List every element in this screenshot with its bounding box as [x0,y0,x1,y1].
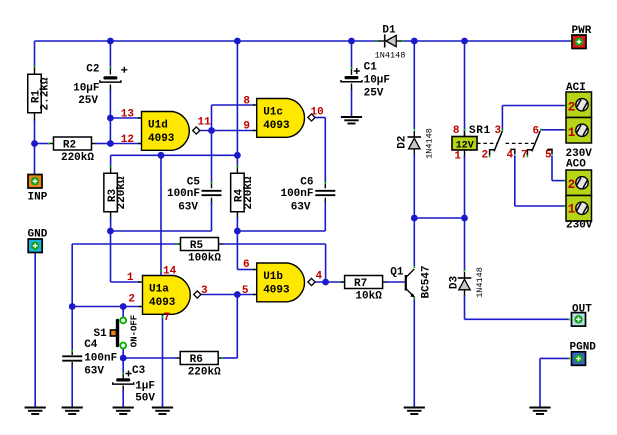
wire node to D3 [464,218,466,272]
svg-text:1: 1 [568,203,576,217]
svg-text:10kΩ: 10kΩ [355,291,382,303]
wire node row left [111,230,212,232]
svg-text:ACI: ACI [566,82,586,94]
svg-text:220kΩ: 220kΩ [116,176,128,209]
wire U1d out to U1c pin9 [199,130,253,132]
svg-text:8: 8 [453,125,460,137]
resistor R4 box [231,173,245,212]
svg-text:4093: 4093 [263,285,290,297]
wire collector row [414,217,464,219]
svg-text:U1d: U1d [148,120,168,132]
wire D3 to OUT row [464,295,466,319]
wire pin4 down [514,156,516,207]
ground (U1a pin7) [152,407,173,409]
wire R5 right [222,243,326,245]
wire rail to D2 [413,41,415,131]
svg-text:ACO: ACO [566,159,586,171]
wire R7 to Q1 base [386,281,405,283]
svg-text:D2: D2 [396,136,408,149]
connector ACI [566,92,592,143]
svg-text:D3: D3 [449,276,461,290]
wire to ACI pin2 [502,105,564,107]
junction D2/collector row [411,215,418,222]
svg-text:2: 2 [482,150,489,162]
svg-text:2: 2 [568,178,576,192]
svg-text:63V: 63V [84,366,104,378]
svg-text:220kΩ: 220kΩ [188,367,221,379]
wire U1a pin2 [72,306,138,308]
op-amp U1b (NAND 4093) [257,263,305,302]
svg-text:U1b: U1b [263,271,283,283]
svg-text:D1: D1 [382,25,396,37]
junction coil/rail [461,38,468,45]
wire contact1 to ACI2 v [501,106,503,130]
wire GND to gnd [34,253,36,408]
transistor Q1 [405,269,415,298]
wire to ACO pin2 [552,180,564,182]
svg-text:100nF: 100nF [84,353,117,365]
wire S1 to node [122,349,124,359]
wire to Q1 collector [413,218,415,268]
wire U1d pin13 [110,117,138,119]
svg-text:220kΩ: 220kΩ [243,176,255,209]
junction S1/C3/R6 [120,355,127,362]
wire C4 top [71,244,73,307]
svg-text:100nF: 100nF [280,188,313,200]
wire C3 to gnd [122,390,124,408]
capacitor C6 [315,190,335,192]
ground (PGND) [529,407,550,409]
svg-text:2: 2 [128,294,135,306]
wire R5 to U1b out [325,244,327,282]
junction R3/C5 row [107,228,114,235]
ground (C1) [341,116,362,118]
svg-text:1N4148: 1N4148 [375,51,406,61]
svg-text:4093: 4093 [149,297,176,309]
svg-text:3: 3 [495,125,502,137]
relay linkage dashed [477,142,534,144]
wire R6 left [123,357,177,359]
junction U1b out/R5 [322,279,329,286]
svg-text:Q1: Q1 [390,267,404,279]
svg-text:1µF: 1µF [135,381,155,393]
svg-text:63V: 63V [291,202,311,214]
wire R4 bottom to U1b pin6 [236,218,238,270]
resistor R1 box [28,74,42,113]
capacitor C5 [202,190,222,192]
wire U1b out to R7 [314,281,341,283]
wire pin5 down [551,156,553,181]
wire to C3 [122,358,124,375]
wire D2 to collector node [413,154,415,218]
ground (Q1 emitter) [404,407,425,409]
junction U1d out [208,127,215,134]
ground (GND terminal) [25,407,46,409]
svg-text:ON-OFF: ON-OFF [130,315,140,347]
wire +12V rail right [402,40,573,42]
svg-text:12: 12 [121,134,134,146]
wire U1b pin6 [237,269,253,271]
svg-text:2.2kΩ: 2.2kΩ [40,77,52,110]
svg-text:1: 1 [454,151,461,163]
wire rail to R4 [236,41,238,168]
capacitor C2 [103,76,117,79]
svg-text:C5: C5 [187,177,201,189]
svg-text:C1: C1 [364,62,378,74]
resistor R7 [345,276,383,289]
resistor R3 box [104,173,118,212]
svg-text:R7: R7 [354,278,367,290]
wire U1a out to U1b pin5 [200,294,253,296]
wire to ACI pin1 [540,129,564,131]
svg-text:4093: 4093 [148,133,175,145]
relay pin 4 stub [510,149,514,154]
junction R4-col/rail [234,38,241,45]
wire VDD rail left [35,40,378,42]
capacitor C3 [116,378,130,381]
svg-text:1N4148: 1N4148 [475,267,485,298]
svg-text:230V: 230V [566,220,593,232]
capacitor C1 [345,76,359,79]
wire C1 to gnd [351,90,353,118]
svg-text:PGND: PGND [570,342,597,354]
junction C4/pin2 [69,303,76,310]
svg-text:14: 14 [163,266,177,278]
wire U1a pin1 [111,281,139,283]
wire R1 top [34,41,36,68]
wire U1c out [314,117,325,119]
svg-text:1: 1 [568,126,576,140]
svg-text:9: 9 [243,121,250,133]
svg-text:U1a: U1a [149,284,169,296]
svg-text:C2: C2 [86,64,99,76]
svg-text:25V: 25V [78,95,98,107]
diode D3 [458,277,472,279]
op-amp U1d (NAND 4093) [142,112,190,151]
svg-text:SR1: SR1 [469,125,491,137]
relay contact 1 [490,129,503,157]
relay SR1 coil [452,131,477,150]
terminal GND [28,239,42,253]
terminal INP [28,175,42,189]
ground (C4) [62,407,83,409]
svg-text:4: 4 [316,271,323,283]
junction R2/pin12 [107,140,114,147]
junction pin13 [107,115,114,122]
relay pin 5 stub [547,149,552,154]
wire R3 bottom [110,218,112,232]
svg-text:S1: S1 [94,328,108,340]
wire to R6 [236,295,238,359]
wire R1 to INP [34,120,36,175]
svg-text:10µF: 10µF [73,83,99,95]
wire VDD row [111,154,238,156]
svg-text:GND: GND [28,229,48,241]
wire C2 bottom to pin12 node [109,90,111,144]
svg-text:OUT: OUT [572,304,592,316]
svg-text:63V: 63V [178,202,198,214]
wire R2 left [35,143,51,145]
svg-text:10µF: 10µF [364,75,390,87]
wire U1a pin14 [160,155,162,275]
wire R5 left [72,243,177,245]
svg-text:1N4148: 1N4148 [425,128,435,159]
svg-text:7: 7 [164,312,171,324]
junction D2/rail [411,38,418,45]
svg-text:50V: 50V [135,393,155,405]
wire to U1c pin8 [211,105,213,131]
wire R6 right [222,357,238,359]
wire C1 top [351,41,353,69]
wire rail to coil [464,41,466,131]
svg-text:R6: R6 [190,354,203,366]
terminal PGND [572,352,586,366]
junction C1/rail [348,38,355,45]
terminal PWR [572,35,586,49]
svg-text:7: 7 [521,150,528,162]
op-amp U1a (NAND 4093) [143,276,191,315]
wire to OUT [465,318,571,320]
junction R4/C6 row [234,228,241,235]
resistor R5 [181,238,219,251]
junction coil/D3 row [461,215,468,222]
junction R1/R2/INP [31,140,38,147]
wire C6 bottom [324,202,326,231]
wire R2 right [95,143,110,145]
junction VDD row/R4 [234,152,241,159]
wire node to U1a pin1 [110,231,112,282]
wire node row right [237,230,325,232]
wire coil to node [464,156,466,218]
switch S1 [110,318,127,349]
svg-text:4: 4 [507,150,514,162]
wire Q1 emitter to gnd [413,298,415,408]
svg-text:1: 1 [127,272,134,284]
wire PGND to gnd [539,358,541,407]
svg-text:5: 5 [242,285,249,297]
svg-text:2: 2 [568,101,576,115]
svg-text:R5: R5 [190,240,204,252]
wire U1a pin7 to gnd [162,315,164,408]
svg-text:C4: C4 [84,339,98,351]
wire U1d pin12 [110,143,138,145]
svg-text:BC547: BC547 [420,265,432,298]
svg-text:C3: C3 [132,365,146,377]
svg-text:3: 3 [201,285,208,297]
svg-text:100nF: 100nF [167,188,200,200]
wire to ACO pin1 [515,205,564,207]
pin numbers (red) [121,96,576,325]
wire U1c pin8 [212,104,254,106]
svg-text:INP: INP [28,192,48,204]
ground (C3) [113,407,134,409]
svg-text:5: 5 [545,150,552,162]
op-amp U1c (NAND 4093) [257,99,305,138]
svg-text:100kΩ: 100kΩ [188,253,221,265]
wire R3 top [110,155,112,167]
junction U1a out/R6 [234,291,241,298]
junction C2/rail [107,38,114,45]
svg-text:U1c: U1c [263,107,283,119]
wire C6 top [324,118,326,185]
terminal OUT [572,313,586,327]
svg-text:220kΩ: 220kΩ [61,152,94,164]
svg-text:R2: R2 [63,140,76,152]
resistor R6 [180,352,218,365]
capacitor C4 [62,355,82,357]
svg-text:4093: 4093 [263,120,290,132]
junction pin14/VDD row [158,152,165,159]
wire C5 top [211,131,213,185]
wire C4 to gnd [71,365,73,408]
diode D2 [408,136,422,138]
wire C5 bottom [211,202,213,231]
wire C2 top [109,41,111,69]
wire PGND row [540,357,570,359]
svg-text:25V: 25V [364,88,384,100]
svg-text:10: 10 [311,107,324,119]
svg-text:13: 13 [121,109,135,121]
relay contact 2 [527,131,540,157]
svg-text:C6: C6 [300,177,313,189]
svg-text:11: 11 [198,117,212,129]
svg-text:6: 6 [533,125,540,137]
resistor R2 [54,137,92,150]
svg-text:PWR: PWR [572,25,592,37]
junction S1/pin2 [120,303,127,310]
connector ACO [566,170,592,221]
wire to C4 [71,307,73,353]
svg-text:6: 6 [243,259,250,271]
wire to S1 [122,307,124,318]
svg-text:8: 8 [243,96,250,108]
diode D1 [378,35,402,48]
